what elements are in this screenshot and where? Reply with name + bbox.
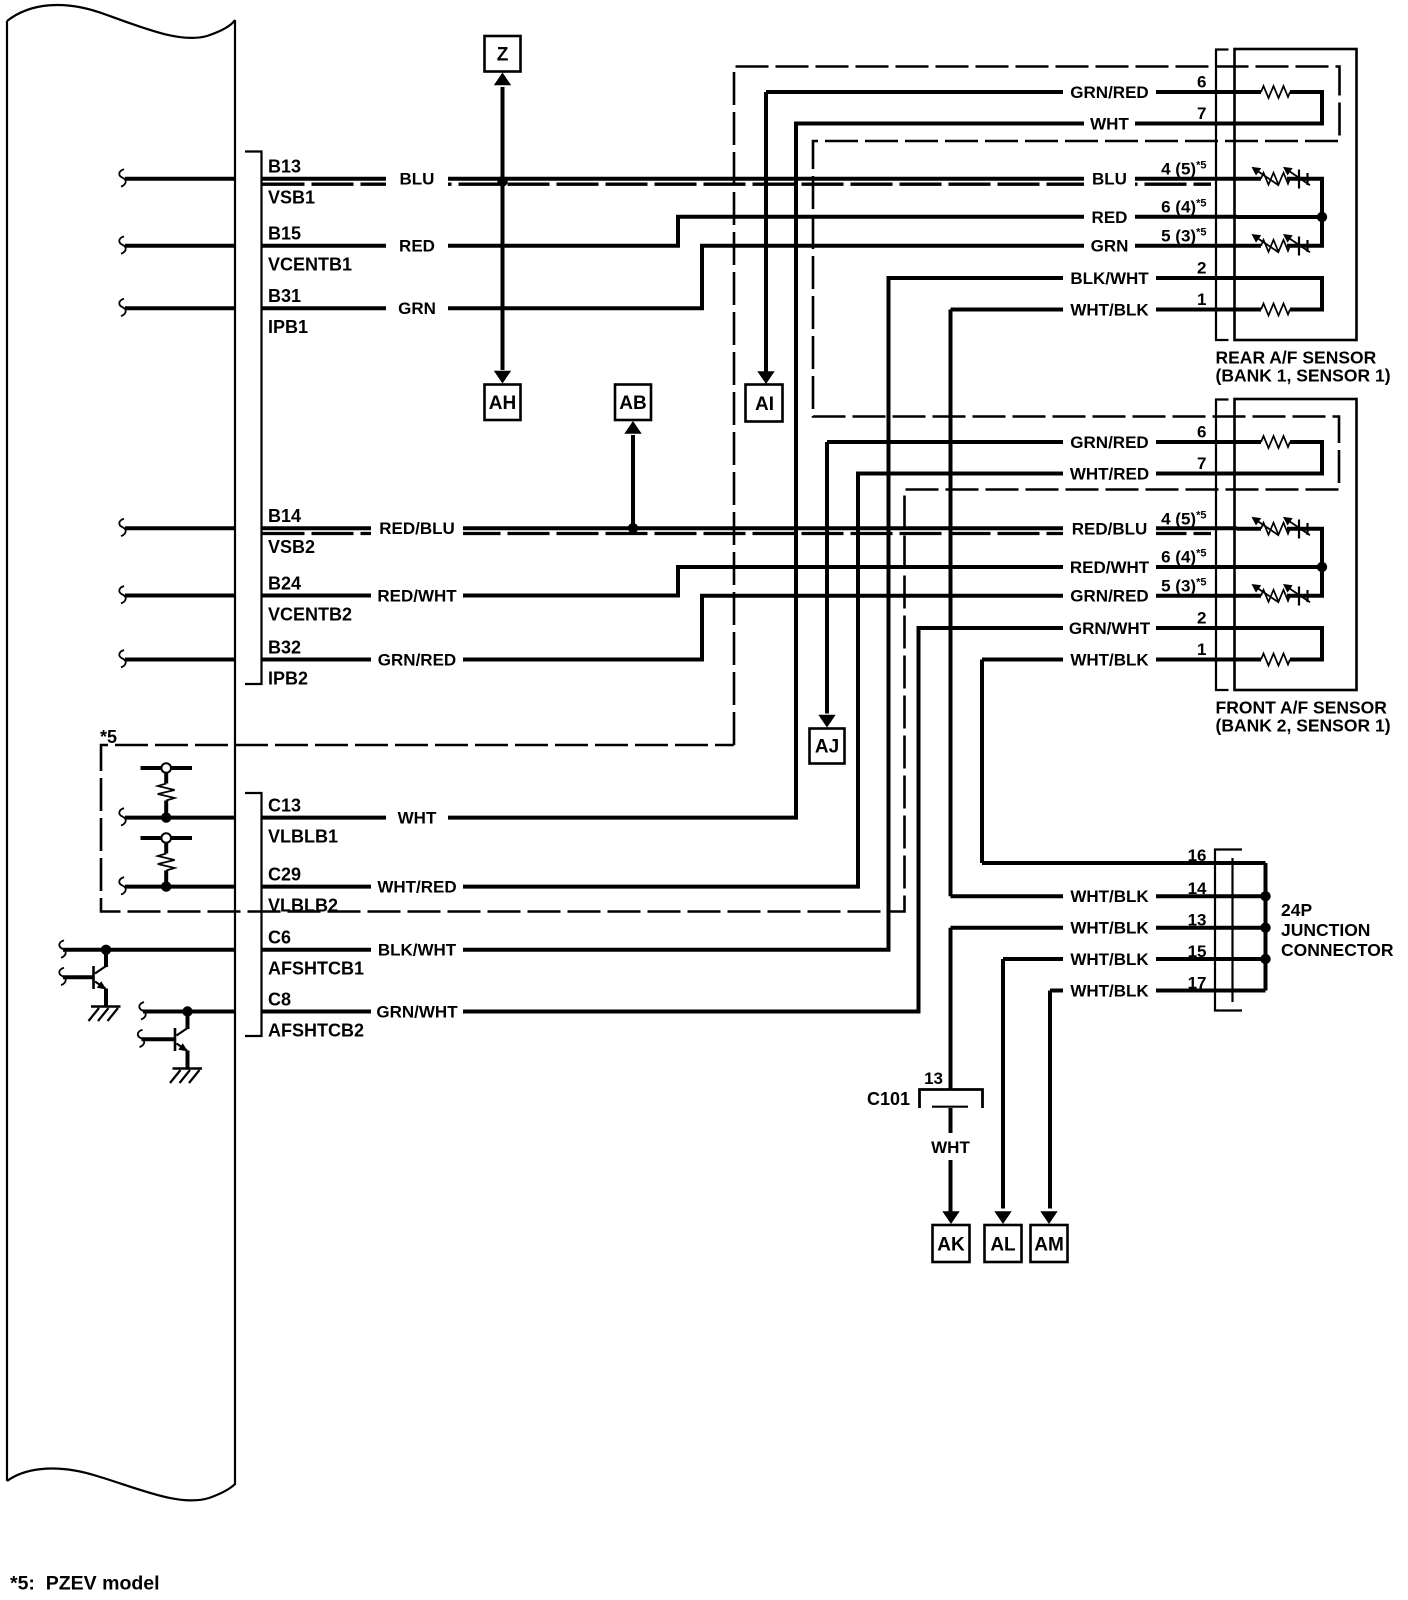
- svg-text:WHT/BLK: WHT/BLK: [1070, 981, 1149, 1000]
- svg-text:RED: RED: [399, 237, 435, 256]
- svg-text:RED/BLU: RED/BLU: [379, 519, 455, 538]
- svg-text:*5: *5: [100, 727, 117, 747]
- svg-text:VSB2: VSB2: [268, 537, 315, 557]
- svg-text:FRONT A/F SENSOR: FRONT A/F SENSOR: [1216, 698, 1388, 718]
- svg-text:AB: AB: [619, 393, 646, 414]
- svg-text:VCENTB1: VCENTB1: [268, 255, 352, 275]
- svg-text:C29: C29: [268, 864, 301, 884]
- svg-text:B31: B31: [268, 286, 301, 306]
- svg-text:WHT/BLK: WHT/BLK: [1070, 650, 1149, 669]
- svg-text:BLK/WHT: BLK/WHT: [1070, 269, 1149, 288]
- svg-text:BLU: BLU: [400, 170, 435, 189]
- svg-text:GRN/RED: GRN/RED: [1070, 83, 1148, 102]
- svg-text:BLK/WHT: BLK/WHT: [378, 941, 457, 960]
- svg-text:GRN/WHT: GRN/WHT: [376, 1002, 458, 1021]
- svg-text:RED/WHT: RED/WHT: [377, 586, 457, 605]
- svg-text:REAR A/F SENSOR: REAR A/F SENSOR: [1216, 348, 1377, 368]
- svg-text:Z: Z: [497, 45, 509, 66]
- svg-text:WHT/BLK: WHT/BLK: [1070, 950, 1149, 969]
- svg-text:C13: C13: [268, 795, 301, 815]
- svg-text:GRN/WHT: GRN/WHT: [1069, 619, 1151, 638]
- svg-text:WHT/BLK: WHT/BLK: [1070, 887, 1149, 906]
- svg-text:24P: 24P: [1281, 900, 1312, 920]
- svg-text:14: 14: [1188, 879, 1207, 898]
- svg-text:AM: AM: [1034, 1235, 1064, 1256]
- svg-text:WHT/BLK: WHT/BLK: [1070, 300, 1149, 319]
- svg-text:*5: PZEV model: *5: PZEV model: [10, 1573, 160, 1595]
- svg-text:B15: B15: [268, 224, 301, 244]
- svg-text:GRN: GRN: [398, 299, 436, 318]
- svg-text:VSB1: VSB1: [268, 188, 315, 208]
- svg-text:WHT/RED: WHT/RED: [1070, 464, 1149, 483]
- svg-text:AL: AL: [990, 1235, 1016, 1256]
- svg-text:AJ: AJ: [815, 737, 839, 758]
- svg-text:RED/BLU: RED/BLU: [1072, 520, 1148, 539]
- svg-text:IPB1: IPB1: [268, 317, 308, 337]
- svg-text:AFSHTCB2: AFSHTCB2: [268, 1020, 364, 1040]
- svg-text:RED: RED: [1092, 208, 1128, 227]
- svg-text:13: 13: [924, 1069, 943, 1088]
- svg-text:C8: C8: [268, 989, 291, 1009]
- svg-text:IPB2: IPB2: [268, 668, 308, 688]
- svg-text:RED/WHT: RED/WHT: [1070, 558, 1150, 577]
- svg-text:AFSHTCB1: AFSHTCB1: [268, 959, 364, 979]
- svg-text:B32: B32: [268, 637, 301, 657]
- svg-text:GRN: GRN: [1091, 237, 1129, 256]
- svg-text:17: 17: [1188, 973, 1207, 992]
- svg-text:WHT/RED: WHT/RED: [377, 877, 456, 896]
- svg-text:VCENTB2: VCENTB2: [268, 604, 352, 624]
- svg-text:C101: C101: [867, 1089, 910, 1109]
- svg-text:B13: B13: [268, 157, 301, 177]
- svg-text:AI: AI: [755, 394, 774, 415]
- svg-text:16: 16: [1188, 846, 1207, 865]
- svg-text:VLBLB1: VLBLB1: [268, 826, 338, 846]
- svg-text:VLBLB2: VLBLB2: [268, 895, 338, 915]
- svg-text:B24: B24: [268, 573, 301, 593]
- svg-text:JUNCTION: JUNCTION: [1281, 920, 1370, 940]
- svg-text:GRN/RED: GRN/RED: [1070, 587, 1148, 606]
- svg-text:AK: AK: [937, 1235, 965, 1256]
- svg-text:GRN/RED: GRN/RED: [1070, 433, 1148, 452]
- svg-text:CONNECTOR: CONNECTOR: [1281, 940, 1394, 960]
- svg-text:WHT: WHT: [398, 808, 437, 827]
- svg-text:WHT: WHT: [1090, 114, 1129, 133]
- svg-text:WHT: WHT: [931, 1138, 970, 1157]
- svg-text:13: 13: [1188, 911, 1207, 930]
- svg-text:(BANK 1, SENSOR 1): (BANK 1, SENSOR 1): [1216, 366, 1391, 386]
- svg-text:AH: AH: [489, 393, 516, 414]
- svg-text:GRN/RED: GRN/RED: [378, 650, 456, 669]
- svg-text:WHT/BLK: WHT/BLK: [1070, 919, 1149, 938]
- svg-text:15: 15: [1188, 942, 1207, 961]
- svg-text:BLU: BLU: [1092, 170, 1127, 189]
- svg-text:B14: B14: [268, 506, 301, 526]
- svg-text:(BANK 2, SENSOR 1): (BANK 2, SENSOR 1): [1216, 716, 1391, 736]
- svg-text:C6: C6: [268, 928, 291, 948]
